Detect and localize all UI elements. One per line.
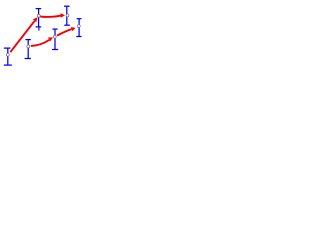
error bar node C [76,19,81,37]
edge arrow D to F (curved) [31,37,53,46]
error bar stub below node A [38,27,40,31]
node E [6,53,9,56]
error bar node F [52,29,58,49]
edge arrow E to A [10,17,37,52]
error bar node A [36,9,42,27]
error bar node B [64,6,70,25]
edge arrow A to B (slight sag) [40,13,65,18]
node B [66,14,69,17]
background [0,0,90,85]
node F [53,35,56,38]
edge arrow F to C (straight) [57,27,76,36]
error bar node D [25,40,31,59]
node C [77,25,80,28]
error bar node E [4,48,12,65]
node D [27,45,30,48]
node A [37,14,40,17]
